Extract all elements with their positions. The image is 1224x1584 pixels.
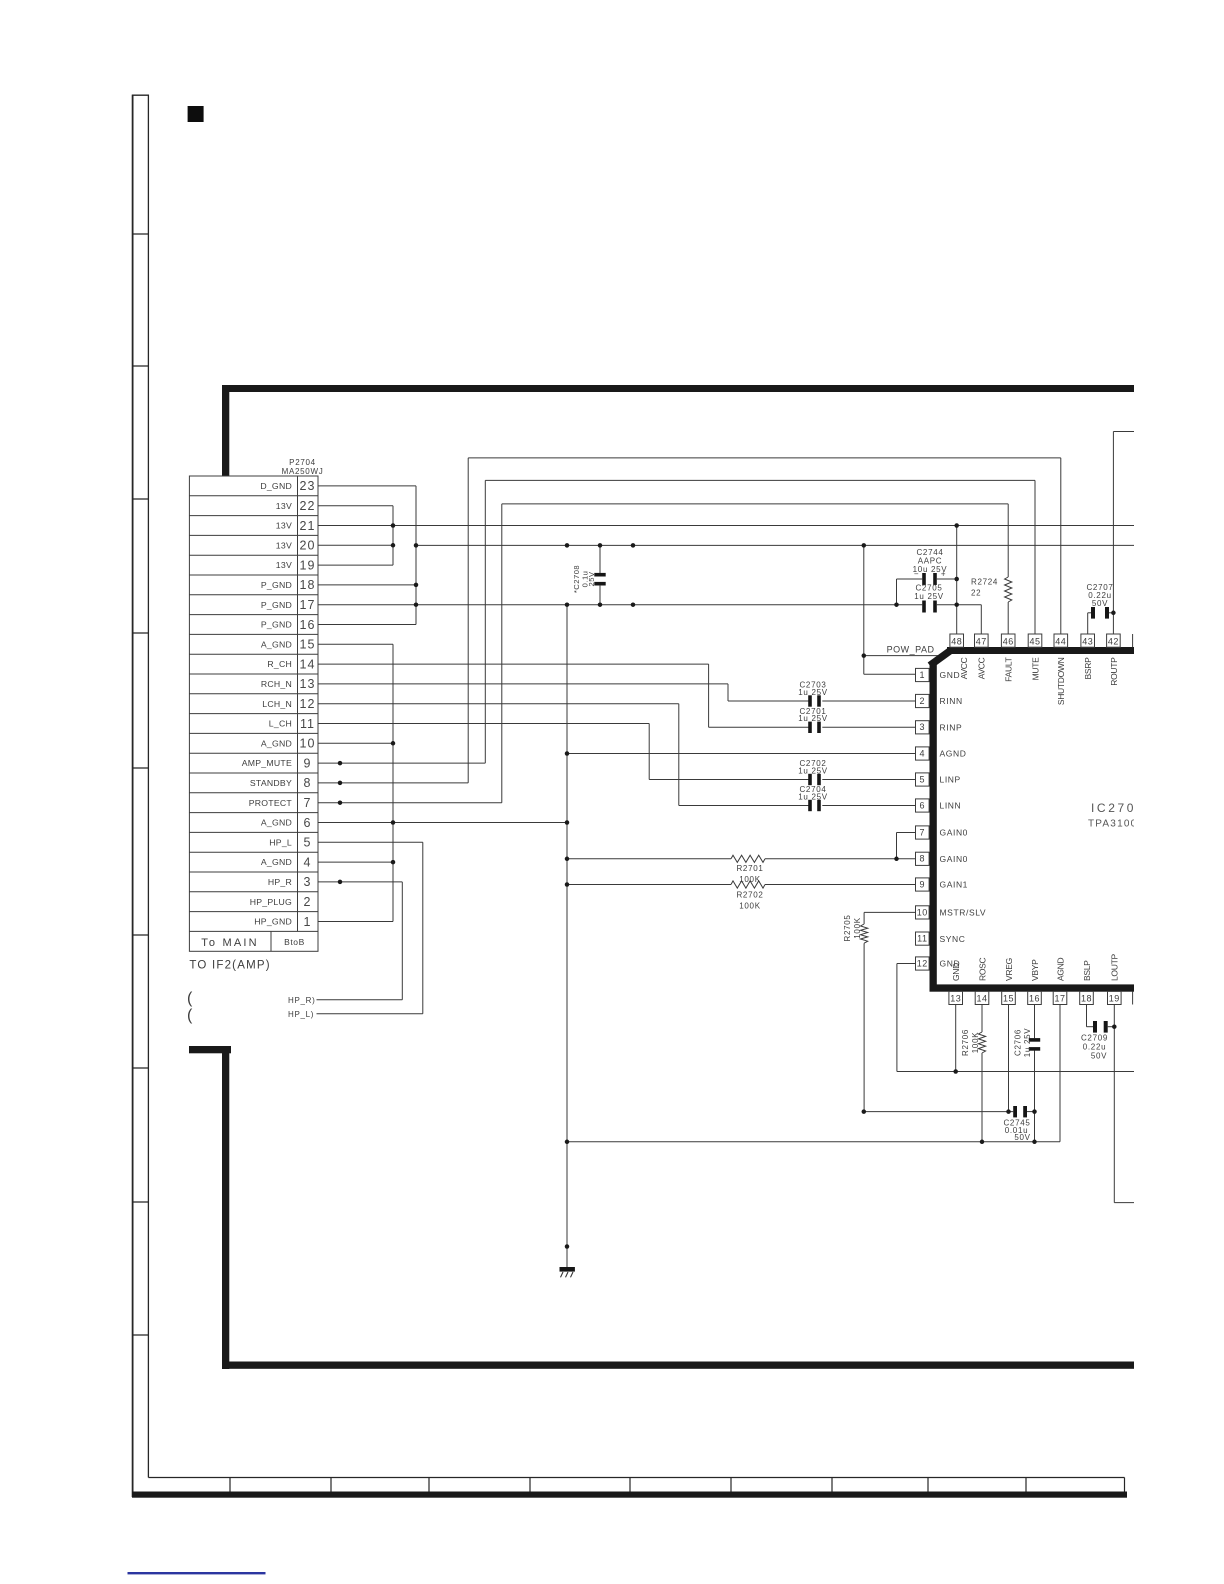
wire POW_PAD wire xyxy=(864,655,942,657)
wire C2707 left lead xyxy=(1088,612,1091,614)
pin 3 RINP xyxy=(916,721,963,734)
node R2705 C2745 junction xyxy=(862,1109,867,1114)
svg-text:6: 6 xyxy=(304,816,312,830)
svg-text:50V: 50V xyxy=(1091,1052,1107,1061)
svg-text:1u 25V: 1u 25V xyxy=(914,592,944,601)
node ROSC AGND junction xyxy=(980,1140,985,1145)
wire STANDBY from pin8 xyxy=(318,782,468,784)
svg-text:R2705: R2705 xyxy=(843,914,852,941)
svg-text:19: 19 xyxy=(1109,994,1120,1004)
wire VREG pin15 vertical xyxy=(1008,1005,1010,1112)
svg-text:1: 1 xyxy=(304,915,312,929)
svg-text:9: 9 xyxy=(920,879,926,889)
node VBYP AGND junction xyxy=(1032,1140,1037,1145)
svg-text:BSRP: BSRP xyxy=(1083,657,1093,680)
svg-text:3: 3 xyxy=(920,722,926,732)
wire ROUTP pin42 vertical xyxy=(1112,432,1114,635)
capacitor C2744 AAPC 10u 25V xyxy=(897,548,957,605)
svg-text:AVCC: AVCC xyxy=(959,657,969,679)
pin 48 AVCC xyxy=(950,634,969,679)
svg-text:GAIN1: GAIN1 xyxy=(940,880,969,890)
pin 8 GAIN0 xyxy=(916,852,969,865)
wire HP_L from pin5 xyxy=(318,841,423,843)
svg-text:14: 14 xyxy=(300,657,316,671)
wire C2708 top lead xyxy=(599,545,601,573)
node AVCC 13V junction xyxy=(954,523,959,528)
svg-text:LOUTP: LOUTP xyxy=(1110,954,1120,981)
svg-text:RCH_N: RCH_N xyxy=(261,679,292,689)
svg-text:1u 25V: 1u 25V xyxy=(798,714,828,723)
svg-text:HP_L: HP_L xyxy=(269,837,292,847)
wire GND to pin1 xyxy=(864,673,916,675)
svg-text:SHUTDOWN: SHUTDOWN xyxy=(1056,657,1066,705)
svg-text:AMP_MUTE: AMP_MUTE xyxy=(242,758,292,768)
node AGND pin4 junction xyxy=(565,751,570,756)
wire pin10 A_GND stub xyxy=(318,742,393,744)
svg-text:LCH_N: LCH_N xyxy=(262,699,292,709)
wire RCH_N vertical xyxy=(727,684,729,701)
svg-text:23: 23 xyxy=(300,479,316,493)
svg-text:13: 13 xyxy=(950,994,961,1004)
wire C2702 to LINP pin5 xyxy=(822,779,916,781)
node P_GND tap B xyxy=(631,602,636,607)
svg-text:C2709: C2709 xyxy=(1081,1033,1108,1042)
node P_GND junction A xyxy=(565,602,570,607)
pin 10 MSTR/SLV xyxy=(916,906,987,919)
svg-text:AGND: AGND xyxy=(940,749,967,759)
wire C2745 left line xyxy=(864,1111,1013,1113)
node D_GND rail start xyxy=(414,543,419,548)
svg-text:(: ( xyxy=(187,990,193,1007)
node D_GND rail tap A xyxy=(565,543,570,548)
svg-text:VREG: VREG xyxy=(1004,958,1014,981)
capacitor C2701 1u 25V xyxy=(798,707,828,733)
svg-text:R2706: R2706 xyxy=(961,1029,970,1056)
svg-text:GAIN0: GAIN0 xyxy=(940,854,969,864)
wire GND rail lower xyxy=(897,1071,1140,1073)
pin 4 AGND xyxy=(916,747,967,760)
pin 18 BSLP xyxy=(1080,960,1094,1005)
pin 13 GND xyxy=(949,963,963,1005)
wire AMP_MUTE vertical xyxy=(484,480,486,763)
registration strip bottom xyxy=(132,1478,1127,1498)
svg-text:0.22u: 0.22u xyxy=(1083,1042,1107,1051)
wire ground lead xyxy=(566,1247,568,1268)
thick frame bottom border xyxy=(222,1362,1140,1369)
wire ROSC upper lead xyxy=(981,1005,983,1033)
svg-text:ROUTP: ROUTP xyxy=(1109,657,1119,686)
wire ROUTP to page edge xyxy=(1113,431,1140,433)
wire R_CH to C2701 xyxy=(709,726,810,728)
svg-text:BtoB: BtoB xyxy=(284,937,305,947)
wire R_CH vertical xyxy=(708,664,710,727)
svg-text:P_GND: P_GND xyxy=(261,620,292,630)
wire LCH_N vertical xyxy=(678,704,680,806)
svg-text:100K: 100K xyxy=(971,1032,980,1053)
pin 1 GND xyxy=(916,668,961,681)
svg-text:FAULT: FAULT xyxy=(1004,657,1014,681)
wire LOUTP pin19 vertical xyxy=(1113,1005,1115,1203)
node C2744 plus junction xyxy=(954,577,959,582)
resistor R2705 100K xyxy=(843,912,916,1111)
svg-text:18: 18 xyxy=(1081,994,1092,1004)
svg-text:13V: 13V xyxy=(276,560,292,570)
svg-text:12: 12 xyxy=(300,697,316,711)
svg-text:11: 11 xyxy=(917,934,927,944)
op-amp U1 IC2701 TPA3100 body xyxy=(930,647,1141,992)
wire SHUTDOWN pin44 drop xyxy=(1060,458,1062,634)
wire BSRP pin43 drop xyxy=(1087,613,1089,634)
svg-text:A_GND: A_GND xyxy=(261,738,292,748)
wire LOUTP to page edge xyxy=(1114,1202,1140,1204)
node POW_PAD junction xyxy=(862,653,867,658)
svg-text:100K: 100K xyxy=(853,917,862,938)
node VBYP C2745 junction xyxy=(1032,1109,1037,1114)
capacitor C2708 0.1u 25V xyxy=(572,545,606,604)
pin 5 LINP xyxy=(916,773,961,786)
node 13V junction pin20 xyxy=(391,543,396,548)
thick frame top border xyxy=(222,385,1140,392)
svg-text:19: 19 xyxy=(300,558,316,572)
registration strip left xyxy=(132,95,149,1497)
wire PROTECT from pin7 xyxy=(318,802,502,804)
wire 13V rail (pin21 to AVCC) xyxy=(318,525,1140,527)
svg-text:P_GND: P_GND xyxy=(261,600,292,610)
svg-text:12: 12 xyxy=(917,958,928,968)
pin 14 ROSC xyxy=(975,957,989,1004)
svg-text:ROSC: ROSC xyxy=(977,957,987,981)
wire HP_R vertical xyxy=(401,882,403,1000)
connector P2704 MA250WJ xyxy=(189,458,323,951)
node AVCC C2705 junction xyxy=(954,602,959,607)
ground xyxy=(560,1247,575,1278)
svg-text:15: 15 xyxy=(1003,994,1014,1004)
svg-text:HP_R): HP_R) xyxy=(288,996,316,1005)
node GAIN1 junction xyxy=(565,882,570,887)
svg-text:AGND: AGND xyxy=(1055,957,1065,981)
svg-text:5: 5 xyxy=(920,774,926,784)
wire HP_R horizontal xyxy=(317,999,403,1001)
pin 42 ROUTP xyxy=(1107,634,1121,686)
svg-text:RINP: RINP xyxy=(940,723,963,733)
wire R_CH from pin14 xyxy=(318,663,709,665)
svg-text:TPA3100: TPA3100 xyxy=(1088,819,1137,830)
capacitor C2705 1u 25V xyxy=(914,584,981,635)
capacitor C2707 0.22u 50V xyxy=(1086,583,1113,634)
svg-text:42: 42 xyxy=(1108,636,1119,646)
pin 43 BSRP xyxy=(1081,634,1095,679)
wire GND pin12 drop xyxy=(896,964,898,1072)
capacitor C2702 1u 25V xyxy=(798,759,828,785)
pin 44 SHUTDOWN xyxy=(1054,634,1068,705)
pin 16 VBYP xyxy=(1028,959,1042,1005)
svg-text:22: 22 xyxy=(300,499,316,513)
node PROTECT tap xyxy=(338,800,343,805)
svg-text:BSLP: BSLP xyxy=(1082,960,1092,981)
wire C2708 bottom lead xyxy=(599,585,601,605)
node GND junction pin18 xyxy=(414,583,419,588)
resistor R2702 100K xyxy=(567,881,916,910)
svg-text:7: 7 xyxy=(304,796,312,810)
svg-text:R_CH: R_CH xyxy=(267,659,292,669)
node GAIN0 junction xyxy=(565,857,570,862)
svg-text:5: 5 xyxy=(304,836,312,850)
wire VBYP upper lead xyxy=(1034,1005,1036,1039)
node A_GND junction pin10 xyxy=(391,741,396,746)
wire AGND pin17 vertical xyxy=(1059,1005,1061,1142)
wire A_GND tie vertical xyxy=(392,644,394,921)
wire A_GND main vertical xyxy=(566,605,568,1266)
svg-text:To MAIN: To MAIN xyxy=(201,937,259,949)
wire GAIN1 right xyxy=(765,884,916,886)
wire GND pin13 vertical xyxy=(955,1005,957,1072)
wire GAIN0 pin7 stub xyxy=(897,832,917,834)
svg-text:STANDBY: STANDBY xyxy=(250,778,292,788)
wire C2707 right lead xyxy=(1109,612,1113,614)
wire C2744 left drop xyxy=(896,579,898,605)
svg-text:43: 43 xyxy=(1082,636,1093,646)
svg-text:18: 18 xyxy=(300,578,316,592)
node STANDBY tap xyxy=(338,781,343,786)
wire PROTECT to FAULT xyxy=(502,503,1008,505)
svg-text:(: ( xyxy=(187,1007,193,1024)
svg-text:−: − xyxy=(914,569,919,578)
wire P_GND rail (pin17) xyxy=(318,604,922,606)
svg-text:1u 25V: 1u 25V xyxy=(1023,1028,1032,1058)
wire pin16 P_GND stub xyxy=(318,624,416,626)
wire L_CH vertical xyxy=(648,724,650,780)
svg-text:44: 44 xyxy=(1055,636,1066,646)
hyperlink underline bottom left xyxy=(128,1572,266,1574)
thick frame left border upper segment xyxy=(222,385,229,476)
svg-text:6: 6 xyxy=(920,800,926,810)
svg-text:1: 1 xyxy=(920,670,926,680)
wire D_GND rail xyxy=(416,544,1140,546)
svg-text:HP_PLUG: HP_PLUG xyxy=(250,897,292,907)
svg-text:13V: 13V xyxy=(276,540,292,550)
svg-text:GAIN0: GAIN0 xyxy=(940,828,969,838)
svg-text:R2724: R2724 xyxy=(971,578,998,587)
svg-text:+: + xyxy=(941,569,946,578)
wire AMP_MUTE to MUTE xyxy=(485,479,1035,481)
svg-text:17: 17 xyxy=(1054,994,1065,1004)
svg-text:45: 45 xyxy=(1029,636,1040,646)
wire STANDBY to SHUTDOWN xyxy=(468,457,1061,459)
wire GAIN0 right xyxy=(765,858,916,860)
svg-text:VBYP: VBYP xyxy=(1030,959,1040,981)
svg-text:9: 9 xyxy=(304,756,312,770)
svg-text:R2701: R2701 xyxy=(736,864,763,873)
wire pin18 P_GND stub xyxy=(318,584,416,586)
svg-text:C2706: C2706 xyxy=(1014,1029,1023,1056)
wire pin19 13V stub xyxy=(318,564,393,566)
wire GAIN0 pin7 drop xyxy=(896,833,898,859)
node VREG junction xyxy=(1006,1109,1011,1114)
svg-text:MUTE: MUTE xyxy=(1030,657,1040,681)
node GAIN0 pin7/8 junction xyxy=(894,857,899,862)
svg-text:GND: GND xyxy=(951,963,961,981)
node C2708 top junction xyxy=(598,543,603,548)
svg-text:16: 16 xyxy=(1029,994,1040,1004)
svg-text:21: 21 xyxy=(300,519,316,533)
thick frame left border lower segment with jog xyxy=(189,1046,231,1369)
node A_GND pin6 junction xyxy=(565,820,570,825)
svg-text:17: 17 xyxy=(300,598,316,612)
wire C2744 left lead xyxy=(897,578,923,580)
svg-text:POW_PAD: POW_PAD xyxy=(887,644,935,654)
capacitor C2745 0.01u 50V xyxy=(864,1106,1035,1142)
node GND drop junction xyxy=(862,543,867,548)
wire HP_L horizontal xyxy=(317,1013,423,1015)
wire FAULT drop lower xyxy=(1007,602,1009,634)
wire AGND to IC pin4 xyxy=(567,753,916,755)
wire R2705 top lead xyxy=(863,912,865,924)
node AMP_MUTE tap xyxy=(338,761,343,766)
node AGND rail junction xyxy=(565,1140,570,1145)
svg-text:2: 2 xyxy=(920,696,926,706)
svg-text:HP_R: HP_R xyxy=(268,877,292,887)
svg-text:A_GND: A_GND xyxy=(261,639,292,649)
wire AMP_MUTE from pin9 xyxy=(318,762,485,764)
svg-text:11: 11 xyxy=(300,717,315,731)
svg-text:8: 8 xyxy=(920,854,926,864)
node GND rail junction xyxy=(953,1069,958,1074)
wire GND tie vertical xyxy=(415,486,417,625)
svg-text:14: 14 xyxy=(976,994,987,1004)
wire pin1 HP_GND stub xyxy=(318,921,393,923)
wire GND drop to pin1 xyxy=(863,545,865,674)
pin 12 GND xyxy=(916,957,961,970)
wire GND pin12 stub xyxy=(897,963,916,965)
resistor R2724 xyxy=(971,577,1012,634)
pin 9 GAIN1 xyxy=(916,878,969,891)
pin 6 LINN xyxy=(916,799,962,812)
svg-text:MSTR/SLV: MSTR/SLV xyxy=(940,908,987,918)
wire GAIN1 left xyxy=(567,884,731,886)
wire LCH_N from pin12 xyxy=(318,703,679,705)
wire pin15 A_GND stub xyxy=(318,643,393,645)
wire AVCC pin48 vertical xyxy=(956,526,958,634)
svg-text:50V: 50V xyxy=(1014,1133,1030,1142)
wire C2744 right lead xyxy=(937,578,957,580)
svg-text:15: 15 xyxy=(300,638,316,652)
wire C2745 right lead xyxy=(1027,1111,1035,1113)
corner marker square xyxy=(188,106,204,122)
wire pin23 D_GND stub xyxy=(318,485,416,487)
wire MUTE pin45 drop xyxy=(1034,480,1036,634)
pin 2 RINN xyxy=(916,694,963,707)
pin 15 VREG xyxy=(1002,958,1016,1004)
node A_GND junction pin6 xyxy=(391,820,396,825)
wire HP_L vertical xyxy=(422,842,424,1013)
wire RCH_N from pin13 xyxy=(318,683,728,685)
svg-text:A_GND: A_GND xyxy=(261,857,292,867)
svg-text:P2704: P2704 xyxy=(289,458,316,467)
node C2707 ROUTP junction xyxy=(1111,611,1116,616)
wire L_CH to C2702 xyxy=(649,779,810,781)
node GND junction pin17 xyxy=(414,602,419,607)
capacitor C2709 0.22u 50V xyxy=(1081,1005,1114,1061)
wire AVCC pin47 drop xyxy=(980,605,982,634)
svg-text:P_GND: P_GND xyxy=(261,580,292,590)
pin 7 GAIN0 xyxy=(916,826,969,839)
svg-text:13V: 13V xyxy=(276,521,292,531)
svg-text:GND: GND xyxy=(940,670,961,680)
pin 17 AGND xyxy=(1053,957,1067,1004)
wire FAULT drop upper xyxy=(1007,504,1009,577)
wire LCH_N to C2704 xyxy=(679,805,810,807)
svg-text:D_GND: D_GND xyxy=(260,481,292,491)
svg-text:4: 4 xyxy=(920,748,926,758)
pin 45 MUTE xyxy=(1028,634,1042,680)
svg-text:MA250WJ: MA250WJ xyxy=(282,467,324,476)
svg-text:L_CH: L_CH xyxy=(269,719,292,729)
node 13V junction pin21 xyxy=(391,523,396,528)
wire L_CH from pin11 xyxy=(318,723,649,725)
wire PROTECT vertical xyxy=(501,504,503,803)
svg-text:48: 48 xyxy=(951,636,962,646)
svg-text:1u 25V: 1u 25V xyxy=(798,766,828,775)
svg-text:50V: 50V xyxy=(1092,599,1108,608)
clipped pin box edges at page crop xyxy=(1132,634,1134,1005)
svg-text:25V: 25V xyxy=(587,571,596,586)
wire pin20 13V stub xyxy=(318,544,393,546)
svg-text:1u 25V: 1u 25V xyxy=(798,792,828,801)
svg-text:10: 10 xyxy=(917,907,928,917)
wire BSLP drop xyxy=(1086,1005,1088,1027)
svg-text:A_GND: A_GND xyxy=(261,818,292,828)
wire C2709 right lead xyxy=(1108,1026,1115,1028)
wire RCH_N to C2703 xyxy=(728,700,810,702)
wire pin4 A_GND stub xyxy=(318,861,393,863)
svg-text:47: 47 xyxy=(976,636,987,646)
node C2709 LOUTP junction xyxy=(1112,1024,1117,1029)
svg-text:HP_L): HP_L) xyxy=(288,1010,314,1019)
svg-text:20: 20 xyxy=(300,539,316,553)
svg-text:13V: 13V xyxy=(276,501,292,511)
pin 47 AVCC xyxy=(975,634,989,679)
svg-text:TO IF2(AMP): TO IF2(AMP) xyxy=(189,960,270,972)
resistor R2701 100K xyxy=(567,855,916,884)
capacitor C2703 1u 25V xyxy=(798,681,828,707)
svg-text:46: 46 xyxy=(1003,636,1014,646)
node HP_R tap xyxy=(338,880,343,885)
wire MSTR/SLV stub xyxy=(864,911,916,913)
wire pin6 A_GND line xyxy=(318,822,567,824)
svg-text:HP_GND: HP_GND xyxy=(254,917,292,927)
brace continuation marks xyxy=(187,990,193,1024)
svg-text:SYNC: SYNC xyxy=(940,934,966,944)
pin 46 FAULT xyxy=(1001,634,1015,682)
wire R2705 bottom lead xyxy=(863,943,865,1111)
resistor R2706 100K xyxy=(961,1005,986,1142)
svg-text:3: 3 xyxy=(304,875,312,889)
svg-text:2: 2 xyxy=(304,895,312,909)
svg-text:8: 8 xyxy=(304,776,312,790)
svg-text:100K: 100K xyxy=(739,901,760,910)
capacitor C2704 1u 25V xyxy=(798,785,828,811)
wire C2703 to RINN pin2 xyxy=(822,700,916,702)
node A_GND junction pin4 xyxy=(391,860,396,865)
pin 19 LOUTP xyxy=(1108,954,1122,1005)
node ground node xyxy=(565,1244,570,1249)
svg-text:LINP: LINP xyxy=(940,775,961,785)
wire C2709 left lead xyxy=(1087,1026,1094,1028)
wire STANDBY vertical xyxy=(467,458,469,783)
svg-text:RINN: RINN xyxy=(940,696,963,706)
svg-text:16: 16 xyxy=(300,618,316,632)
node C2744 gnd junction xyxy=(894,602,899,607)
